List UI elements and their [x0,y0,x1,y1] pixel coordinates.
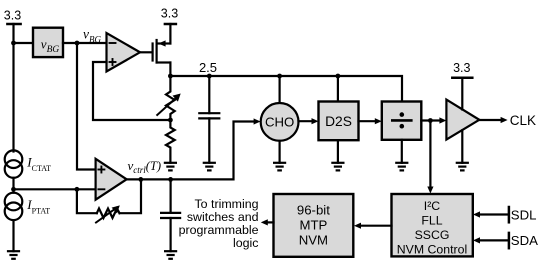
svg-text:FLL: FLL [421,213,442,227]
wire U1 + input feedback [93,62,170,120]
svg-text:To trimming: To trimming [194,197,258,211]
wire to op-amp U2 minus [14,188,96,190]
node feedback (141,179.4) [138,177,143,182]
ground (R2) [165,162,176,164]
arrow into buffer [439,117,446,123]
node CHO top (279.6,76) [277,74,282,79]
svg-text:ICTAT: ICTAT [26,155,51,173]
ground (CHO) [274,162,285,164]
svg-text:IPTAT: IPTAT [26,197,50,215]
node drain (170,76) [168,74,173,79]
current source I_CTAT [5,150,23,168]
capacitor C1 [208,76,210,113]
block I2C/FLL/SSCG/NVM Control [392,194,473,256]
wire left supply down [12,24,14,152]
wire IPTAT to ground [12,220,14,251]
svg-text:NVM Control: NVM Control [397,242,467,256]
wire I2C to NVM [359,225,392,227]
arrow SDL into I2C [473,211,480,217]
terminal SDL [508,207,511,222]
ground (buffer) [457,162,468,164]
wire D2S to divider [359,120,377,122]
resistor R1 variable (top) [166,76,175,120]
arrow into divider [375,118,382,124]
svg-text:MTP: MTP [299,218,327,233]
ground (IPTAT) [8,250,19,252]
wire U1 output to gate [140,51,152,53]
resistor R2 [166,120,175,163]
svg-text:logic: logic [233,236,258,250]
svg-text:vBG: vBG [83,27,101,45]
wire 2.5 rail [170,76,402,102]
wire vctrl U2 output to CHO [127,122,256,180]
supply bar (M1) [165,23,176,26]
arrow into I2C box [427,187,433,194]
ground (C2) [165,250,176,252]
current source I_PTAT [5,193,23,211]
op-amp U2 [96,159,127,200]
svg-text:vctrl(T): vctrl(T) [128,158,162,175]
node A (13.5,43) [11,41,16,46]
wire vBG node to U2 plus [77,43,96,170]
wire ICTAT to node [12,178,14,193]
svg-text:programmable: programmable [179,223,259,237]
node U2 minus tap (76.9,189.3) [75,187,80,192]
arrow SDA into I2C [473,237,480,243]
block 96-bit MTP NVM [274,194,354,257]
svg-text:switches and: switches and [187,210,259,224]
block divider [382,102,422,140]
svg-text:NVM: NVM [299,233,328,248]
wire junction down to I2C [429,121,431,189]
wire NVM to trimming [266,221,274,223]
svg-text:CHO: CHO [265,115,294,130]
wire CHO to D2S [299,120,314,122]
svg-text:SSCG: SSCG [415,228,450,242]
resistor R3 variable (feedback) [97,209,120,218]
oscillator CHO [279,76,281,103]
svg-text:3.3: 3.3 [453,61,470,75]
ground (D2S) [332,162,343,164]
wire feedback down-right [77,189,97,213]
arrow to trimming text [261,219,268,225]
svg-text:2.5: 2.5 [199,60,217,75]
node cap top (209,76) [207,74,212,79]
node R mid (170,120) [168,118,173,123]
arrow into CHO [254,118,261,124]
svg-text:SDA: SDA [511,233,538,248]
svg-text:D2S: D2S [325,114,352,129]
transistor M1 (PMOS) [152,44,154,61]
wire SDL [478,213,509,215]
op-amp U1 [107,33,141,72]
terminal SDA [508,233,511,248]
svg-text:96-bit: 96-bit [297,203,330,218]
node sources (13.5,189.3) [11,187,16,192]
wire CHO to ground [279,141,281,163]
svg-text:CLK: CLK [510,113,536,128]
svg-text:SDL: SDL [511,207,537,222]
ground (C1) [204,162,215,164]
capacitor C2 [170,179,172,213]
wire vBG box to op-amp [63,42,107,44]
wire supply node to VBG box [14,42,34,44]
wire buffer output CLK [479,119,502,121]
buffer U3 [446,100,479,140]
svg-text:3.3: 3.3 [161,7,178,21]
wire feedback right-up [120,179,142,213]
wire divider to ground [401,140,403,163]
ground (divider) [396,162,407,164]
supply bar (buffer) [452,77,472,80]
node vBG (77,43) [75,41,80,46]
svg-text:I²C: I²C [424,199,441,213]
wire D2S to ground [337,140,339,163]
node junction (430.4,120.5) [428,118,433,123]
block vBG (bandgap) [33,28,63,57]
supply bar (left) [7,23,20,26]
wire SDA [478,239,509,241]
block D2S [337,76,339,102]
wire buffer to ground [461,130,463,163]
wire supply to buffer [461,78,463,110]
wire divider to buffer [421,119,441,121]
node D2S top (337.9,76) [336,74,341,79]
node cap C2 tap (170.6,179.4) [168,177,173,182]
arrow into NVM [354,223,361,229]
svg-text:3.3: 3.3 [4,9,21,23]
arrow into D2S [312,118,319,124]
